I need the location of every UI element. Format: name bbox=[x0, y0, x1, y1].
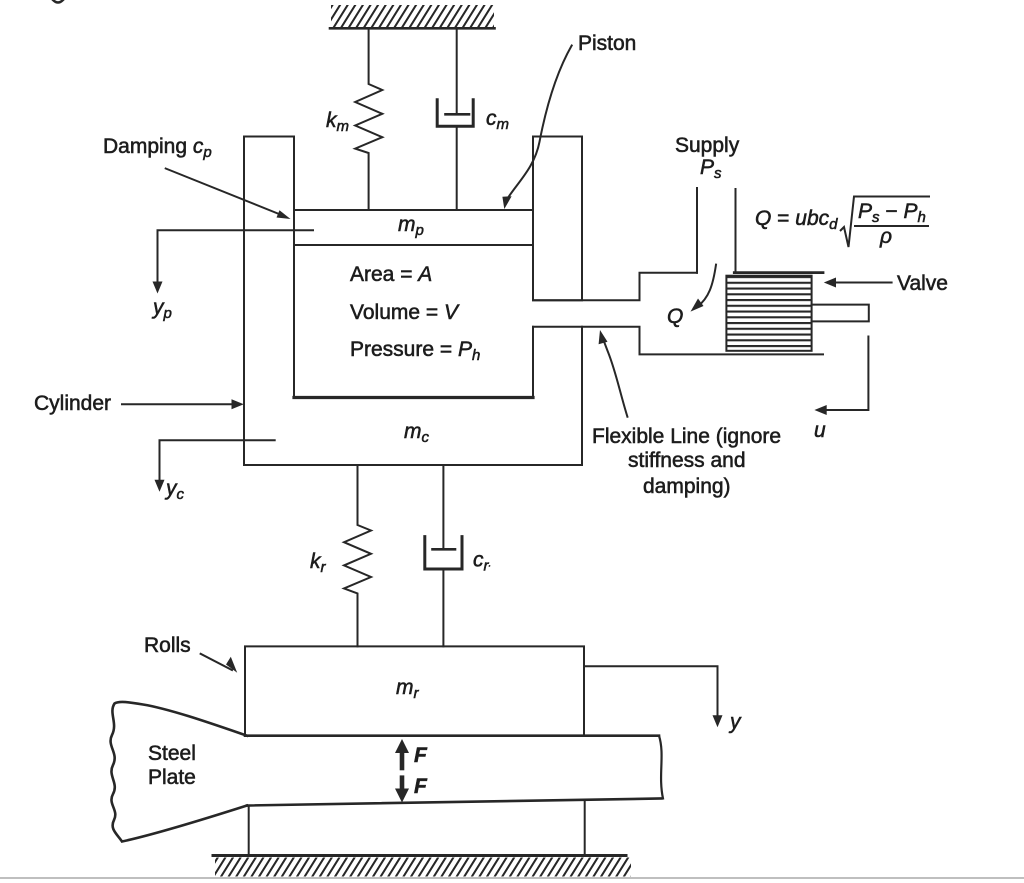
left wall outer line bbox=[243, 137, 245, 466]
yc arrowhead bbox=[155, 480, 165, 492]
piston mp top line bbox=[294, 209, 533, 211]
svg-text:Q = ubcd: Q = ubcd bbox=[755, 207, 838, 233]
yp reference line bbox=[158, 230, 314, 287]
y reference line bbox=[584, 666, 718, 721]
damper cr cup bbox=[425, 537, 462, 569]
piston pointer curve bbox=[507, 46, 572, 201]
flexible line pointer bbox=[602, 336, 628, 417]
force F down arrow bbox=[400, 778, 405, 791]
yc reference line bbox=[160, 440, 275, 485]
rolls mass mr box bbox=[245, 646, 584, 735]
steel plate top line bbox=[245, 734, 659, 737]
damper cr piston plate bbox=[433, 548, 456, 551]
mc box right wall lower bbox=[581, 327, 583, 465]
svg-text:ρ: ρ bbox=[879, 225, 892, 248]
chamber bottom line bbox=[294, 396, 533, 399]
supply pipe right line bbox=[735, 189, 737, 272]
damping cp arrow bbox=[166, 169, 284, 217]
piston mp bottom line bbox=[294, 244, 533, 246]
svg-text:Rolls: Rolls bbox=[144, 634, 191, 657]
ground base line bbox=[213, 854, 626, 857]
equation Q = ubc_d sqrt((Ps-Ph)/rho) bbox=[755, 197, 930, 249]
steel plate funnel bbox=[111, 702, 247, 842]
force F up arrow bbox=[400, 750, 405, 768]
valve chamber top line bbox=[734, 271, 823, 274]
spring km bbox=[355, 29, 382, 211]
steel plate right torn edge bbox=[659, 736, 663, 799]
spring kr bbox=[344, 466, 371, 646]
valve pointer arrow bbox=[830, 282, 892, 284]
faint page rule at bottom bbox=[0, 877, 1024, 879]
damper cm piston plate bbox=[446, 113, 470, 116]
pipe upper boundary bbox=[533, 273, 697, 301]
svg-text:Area = A: Area = A bbox=[350, 263, 432, 286]
damper cm rod upper bbox=[456, 29, 458, 114]
svg-text:Flexible Line (ignore: Flexible Line (ignore bbox=[592, 425, 781, 448]
svg-text:Volume = V: Volume = V bbox=[350, 301, 460, 324]
right guide block bbox=[533, 137, 582, 301]
damper cm cup bbox=[437, 100, 473, 127]
damper cm rod lower bbox=[456, 128, 458, 210]
supply pipe left line bbox=[696, 188, 698, 273]
svg-text:Piston: Piston bbox=[578, 32, 636, 55]
svg-text:Damping cp: Damping cp bbox=[103, 135, 212, 161]
svg-text:Plate: Plate bbox=[148, 766, 196, 789]
svg-text:stiffness and: stiffness and bbox=[628, 449, 746, 472]
right support leg bbox=[584, 800, 586, 855]
valve stem bbox=[812, 305, 869, 322]
stray glyph fragment top-left bbox=[53, 0, 63, 3]
svg-text:Valve: Valve bbox=[897, 272, 948, 295]
ceiling hatch block bbox=[331, 5, 494, 27]
svg-text:F: F bbox=[414, 775, 428, 798]
valve spool hatched box bbox=[726, 276, 811, 351]
piston pointer arrowhead bbox=[502, 196, 511, 209]
svg-text:Supply: Supply bbox=[675, 134, 740, 157]
y arrowhead bbox=[713, 715, 723, 727]
left wall inner line bbox=[293, 137, 295, 398]
svg-text:u: u bbox=[814, 419, 826, 442]
chamber right wall lower segment bbox=[532, 327, 534, 398]
svg-text:Ps − Ph: Ps − Ph bbox=[858, 200, 926, 226]
left wall top edge bbox=[244, 136, 294, 138]
u input line bbox=[821, 337, 868, 411]
rolls pointer arrow bbox=[201, 654, 232, 670]
svg-text:Steel: Steel bbox=[148, 742, 196, 765]
svg-text:Q: Q bbox=[667, 305, 683, 328]
svg-text:Cylinder: Cylinder bbox=[34, 392, 111, 415]
steel plate bottom line bbox=[247, 799, 661, 806]
damper cr rod lower bbox=[442, 571, 444, 647]
left support leg bbox=[248, 806, 250, 856]
svg-text:y: y bbox=[728, 711, 742, 734]
cylinder pointer arrow bbox=[122, 403, 237, 405]
ceiling base line bbox=[330, 27, 495, 30]
yp arrowhead bbox=[153, 282, 163, 294]
mc box bottom bbox=[244, 464, 582, 466]
svg-text:Pressure = Ph: Pressure = Ph bbox=[350, 338, 480, 364]
pipe lower boundary bbox=[533, 327, 823, 355]
svg-text:F: F bbox=[414, 744, 428, 767]
damper cr rod upper bbox=[442, 466, 444, 549]
Q flow arrow bbox=[697, 265, 716, 307]
svg-text:damping): damping) bbox=[643, 475, 731, 498]
ground hatch block bbox=[215, 858, 631, 877]
